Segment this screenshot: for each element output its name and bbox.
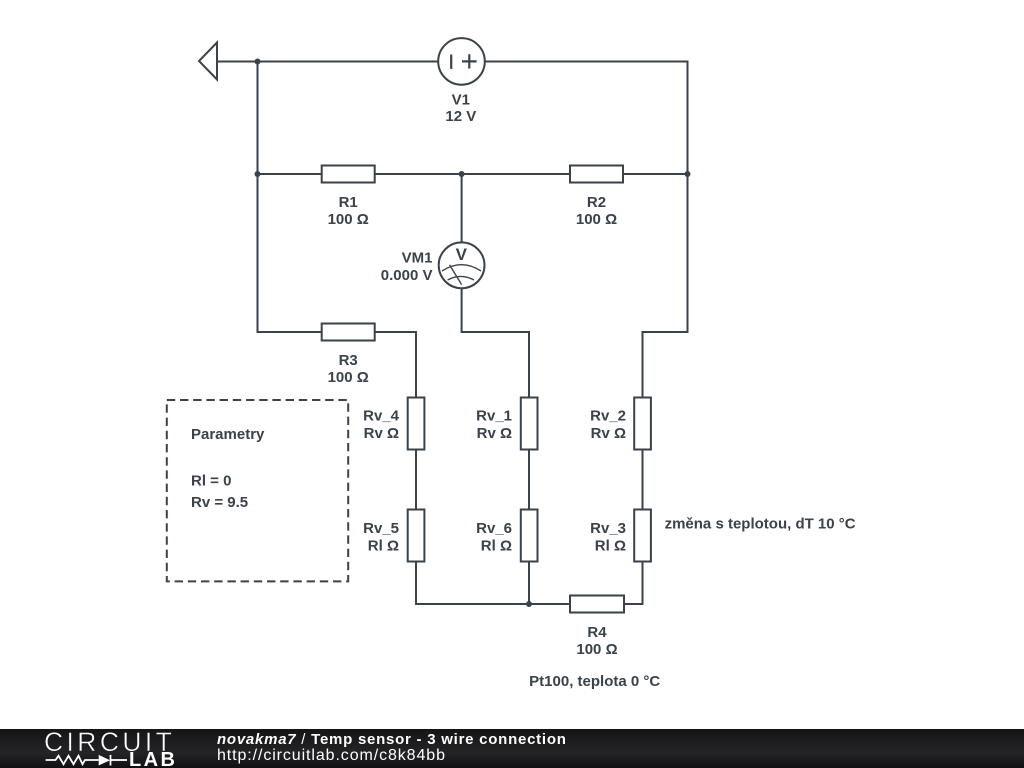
svg-text:100 Ω: 100 Ω	[576, 211, 617, 228]
svg-text:Parametry: Parametry	[191, 426, 265, 443]
svg-text:Rv_3: Rv_3	[590, 520, 626, 537]
svg-text:Rv_4: Rv_4	[363, 408, 400, 425]
svg-text:R4: R4	[587, 624, 607, 641]
svg-text:Rl Ω: Rl Ω	[481, 538, 512, 555]
svg-text:VM1: VM1	[402, 250, 433, 267]
svg-text:R3: R3	[339, 352, 358, 369]
svg-text:Rl Ω: Rl Ω	[368, 538, 399, 555]
svg-text:R2: R2	[587, 194, 606, 211]
svg-text:Rv = 9.5: Rv = 9.5	[191, 494, 248, 511]
svg-text:Rv_6: Rv_6	[476, 520, 512, 537]
svg-text:Rv Ω: Rv Ω	[591, 425, 626, 442]
svg-text:Pt100, teplota 0 °C: Pt100, teplota 0 °C	[529, 673, 660, 690]
svg-text:R1: R1	[339, 194, 358, 211]
svg-text:100 Ω: 100 Ω	[576, 641, 617, 658]
svg-text:Rl = 0: Rl = 0	[191, 472, 231, 489]
svg-text:Rv Ω: Rv Ω	[364, 425, 399, 442]
svg-text:100 Ω: 100 Ω	[328, 211, 369, 228]
svg-text:změna s teplotou, dT 10 °C: změna s teplotou, dT 10 °C	[665, 515, 856, 532]
svg-text:Rl Ω: Rl Ω	[595, 538, 626, 555]
svg-text:Rv_5: Rv_5	[363, 520, 399, 537]
svg-text:Rv Ω: Rv Ω	[477, 425, 512, 442]
svg-text:Rv_2: Rv_2	[590, 408, 626, 425]
svg-text:12 V: 12 V	[445, 108, 476, 125]
svg-text:Rv_1: Rv_1	[476, 408, 512, 425]
svg-text:V1: V1	[452, 92, 470, 109]
svg-text:V: V	[456, 245, 468, 264]
svg-text:0.000 V: 0.000 V	[381, 267, 433, 284]
svg-text:LAB: LAB	[129, 749, 177, 768]
svg-text:100 Ω: 100 Ω	[328, 369, 369, 386]
